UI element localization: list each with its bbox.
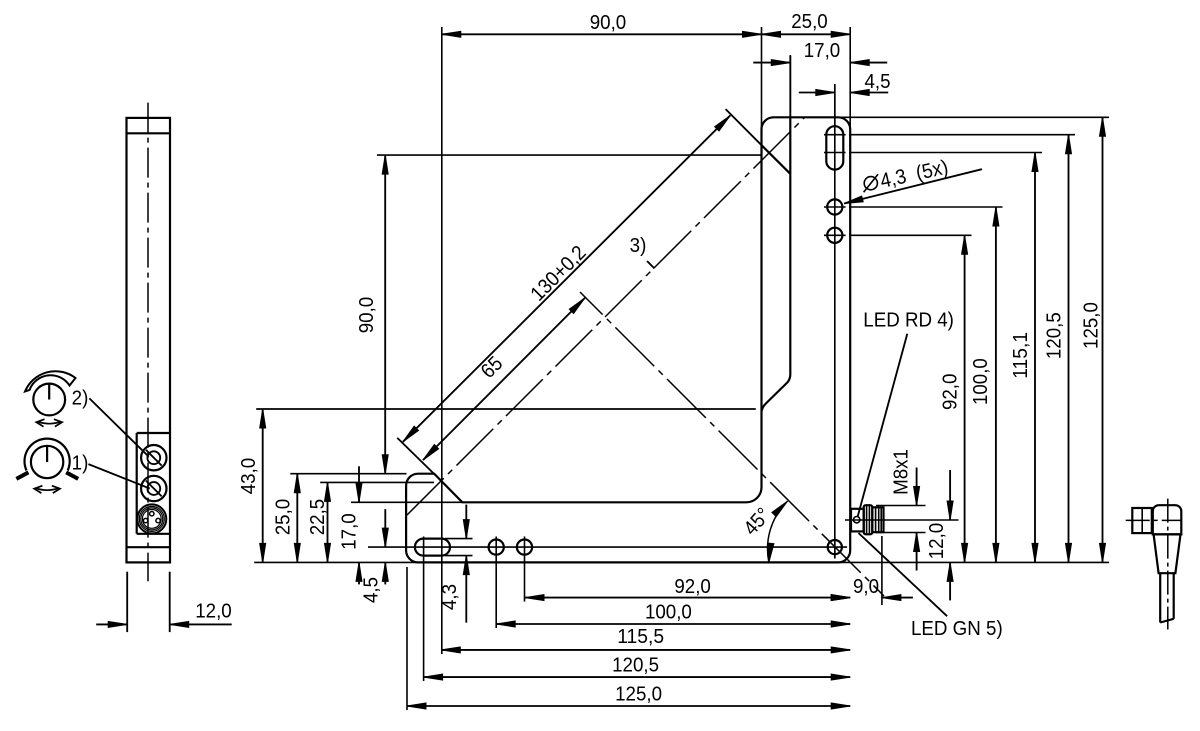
svg-text:M8x1: M8x1 xyxy=(890,449,913,495)
window extension line 17 xyxy=(789,56,791,117)
extension line y502.3 left xyxy=(351,501,462,503)
svg-text:92,0: 92,0 xyxy=(939,374,962,411)
extension line y235.3 right xyxy=(849,234,972,236)
svg-text:125,0: 125,0 xyxy=(1080,302,1103,349)
knob 1 symbol xyxy=(16,439,78,479)
extension line x761.5 top xyxy=(761,27,763,131)
side view top cap line xyxy=(127,132,171,134)
svg-text:12,0: 12,0 xyxy=(195,600,232,623)
M8 socket end view xyxy=(137,504,166,533)
dimension 25,0 left xyxy=(272,474,301,563)
hole A vertical arm xyxy=(824,199,846,214)
dimension 92,0 right xyxy=(939,235,968,562)
dimension 92,0 bottom xyxy=(525,575,850,601)
label 1) xyxy=(72,452,89,475)
dimension 43,0 xyxy=(237,409,266,562)
dimension 125,0 bottom xyxy=(407,682,850,709)
mirror bevel extension xyxy=(397,438,434,474)
svg-text:12,0: 12,0 xyxy=(925,523,948,560)
svg-text:22,5: 22,5 xyxy=(306,499,329,536)
M8 connector collar xyxy=(864,505,873,534)
dimension 9,0 bottom xyxy=(831,575,913,601)
extension line y473.7 xyxy=(290,473,406,475)
window line vertical arm xyxy=(789,117,791,374)
diagonal symmetry axis xyxy=(580,292,884,596)
svg-text:130+0,2: 130+0,2 xyxy=(526,241,591,306)
extension line y482.4 xyxy=(320,481,434,483)
extension line M8 bottom xyxy=(876,532,926,534)
optical axis centerline xyxy=(407,117,805,515)
extension line x834.8 top xyxy=(834,84,836,126)
svg-text:9,0: 9,0 xyxy=(853,575,879,598)
dimension 45 deg arc xyxy=(739,501,787,562)
dimension 65 xyxy=(423,298,585,460)
svg-text:125,0: 125,0 xyxy=(615,682,662,705)
leader 2 xyxy=(89,398,148,456)
svg-text:4,5: 4,5 xyxy=(864,70,890,93)
extension line x850.2 top xyxy=(849,27,851,131)
extension line y562.4 right xyxy=(838,561,1109,563)
adjustment screw 1 xyxy=(141,476,166,501)
svg-text:4,3: 4,3 xyxy=(438,584,461,610)
svg-text:115,1: 115,1 xyxy=(1009,332,1032,379)
svg-text:90,0: 90,0 xyxy=(355,297,378,334)
extension line y152.5 right xyxy=(849,152,1042,154)
dimension 130+0,2 xyxy=(403,115,730,441)
extension line x407 bottom xyxy=(406,567,408,710)
side view control panel xyxy=(137,433,170,534)
label LED GN 5) xyxy=(911,617,1003,640)
extension line x790.3 top xyxy=(789,55,791,117)
side view bottom cap line xyxy=(127,546,171,548)
svg-text:LED GN 5): LED GN 5) xyxy=(911,617,1003,640)
leader LED GN xyxy=(859,533,948,616)
dimension 120,5 bottom xyxy=(424,653,851,680)
svg-text:90,0: 90,0 xyxy=(590,11,627,34)
svg-text:100,0: 100,0 xyxy=(645,601,692,624)
svg-text:43,0: 43,0 xyxy=(237,458,260,495)
dimension 115,5 bottom xyxy=(441,625,850,653)
extension line y155 xyxy=(377,154,762,156)
label 4,5 left xyxy=(360,577,383,603)
svg-text:92,0: 92,0 xyxy=(674,575,711,598)
M8 connector thread xyxy=(872,507,883,532)
hole centerline horizontal xyxy=(368,546,847,548)
side view centerline xyxy=(147,103,149,582)
knob 2 swing arrow xyxy=(36,419,62,426)
svg-text:1): 1) xyxy=(72,452,89,475)
cable connector centerlines xyxy=(1126,499,1182,630)
corner hole xyxy=(828,537,842,559)
label 4,3 xyxy=(438,584,461,610)
cable connector head xyxy=(1153,505,1182,534)
extension line x524.5 bottom xyxy=(524,558,526,602)
hole D horizontal arm xyxy=(517,537,532,559)
extension lines 4,3 xyxy=(445,539,473,556)
dimension 125,0 right xyxy=(1080,117,1106,562)
extension line y207 right xyxy=(849,206,1003,208)
callout 4,3 5x xyxy=(844,156,982,204)
dimension 12,0 right xyxy=(947,470,953,600)
knob 1 swing arrow xyxy=(34,486,60,493)
dimension 12,0 side view xyxy=(96,600,232,628)
mirror chamfer top xyxy=(762,145,791,174)
dimension 100,0 bottom xyxy=(496,601,850,628)
svg-text:120,5: 120,5 xyxy=(612,653,659,676)
svg-text:LED RD 4): LED RD 4) xyxy=(863,309,954,332)
leader 3 xyxy=(647,261,655,269)
dimension 4,5 left xyxy=(382,509,388,584)
svg-text:4,5: 4,5 xyxy=(360,577,383,603)
svg-text:65: 65 xyxy=(476,352,507,383)
window top extension line xyxy=(256,408,756,410)
dimension 90,0 left xyxy=(355,155,388,474)
svg-text:2): 2) xyxy=(72,387,89,410)
cable lines xyxy=(1160,573,1174,622)
hole C horizontal arm xyxy=(489,537,504,559)
extension line M8 top xyxy=(876,505,926,507)
label 3) xyxy=(630,234,647,257)
dimension 17,0 top xyxy=(753,39,887,66)
svg-text:25,0: 25,0 xyxy=(791,10,828,33)
extension line y117.3 right xyxy=(838,116,1109,118)
dimension 4,5 top xyxy=(799,70,891,96)
extension line x441.8 xyxy=(441,27,443,556)
sensor body outline (front view) xyxy=(406,117,850,562)
cable connector neck xyxy=(1153,534,1182,573)
knob 2 symbol xyxy=(25,371,76,415)
extension line x441.8 bottom xyxy=(441,556,443,654)
window chamfer bottom xyxy=(762,375,790,411)
svg-text:3): 3) xyxy=(630,234,647,257)
hole centerline vertical xyxy=(834,85,836,559)
cable connector nut xyxy=(1132,508,1152,533)
svg-text:25,0: 25,0 xyxy=(272,499,295,536)
label LED RD 4) xyxy=(863,309,954,332)
leader 1 xyxy=(88,464,149,488)
dimension 90,0 top xyxy=(442,11,762,37)
dimension 115,1 xyxy=(1009,153,1038,563)
label M8x1 xyxy=(890,449,913,495)
label 2) xyxy=(72,387,89,410)
side view extension lines xyxy=(127,572,170,632)
dimension 17,0 left xyxy=(338,466,363,584)
M8 connector flange xyxy=(851,509,864,532)
LED red on connector xyxy=(854,517,860,523)
svg-text:17,0: 17,0 xyxy=(804,39,841,62)
label 12,0 right xyxy=(925,523,948,560)
extension line x882 bottom xyxy=(881,536,883,605)
connector centerline xyxy=(845,519,959,521)
mirror chamfer top extension xyxy=(726,109,762,145)
hole B vertical arm xyxy=(824,228,846,243)
slot horizontal arm xyxy=(415,537,450,559)
adjustment screw 2 xyxy=(141,445,166,470)
side view bar outline xyxy=(127,118,171,563)
dimension 120,5 right xyxy=(1043,135,1072,563)
svg-text:100,0: 100,0 xyxy=(969,358,992,405)
svg-text:17,0: 17,0 xyxy=(338,513,361,550)
dimension M8x1 xyxy=(914,468,920,571)
dimension 4,3 xyxy=(463,505,469,623)
svg-text:4,3 (5x): 4,3 (5x) xyxy=(878,156,950,193)
slot vertical arm xyxy=(824,126,846,169)
dimension 22,5 xyxy=(306,482,331,562)
extension line x423.6 bottom xyxy=(423,558,425,681)
dimension 100,0 right xyxy=(969,207,999,562)
svg-text:115,5: 115,5 xyxy=(617,625,664,648)
dimension 25,0 top xyxy=(762,10,851,37)
extension line y562.4 left xyxy=(254,561,418,563)
svg-text:120,5: 120,5 xyxy=(1043,312,1066,359)
extension line y134.7 right xyxy=(849,134,1075,136)
extension line x496.2 bottom xyxy=(495,558,497,628)
leader LED RD xyxy=(858,334,908,517)
